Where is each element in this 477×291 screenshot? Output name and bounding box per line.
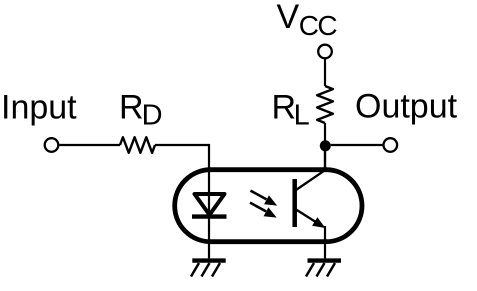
collector lead xyxy=(296,147,325,190)
emitter arrowhead xyxy=(312,217,325,228)
wire RD to LED anode xyxy=(155,145,209,258)
junction node xyxy=(320,140,331,151)
wire input to RD xyxy=(59,144,120,146)
resistor RL xyxy=(317,86,333,123)
emitter lead xyxy=(296,210,316,223)
wire junction to output xyxy=(331,144,384,146)
LED cathode bar xyxy=(192,214,227,218)
optocoupler body xyxy=(175,170,362,242)
light arrow 1 xyxy=(251,191,278,206)
phototransistor Q1 base bar xyxy=(292,179,297,227)
wire RL to junction and collector xyxy=(324,123,326,171)
ground right xyxy=(306,261,341,277)
svg-text:Output: Output xyxy=(355,88,458,126)
LED D1 xyxy=(195,194,225,215)
wire VCC to RL xyxy=(324,59,326,86)
svg-text:VCC: VCC xyxy=(277,0,338,41)
emitter wire to ground xyxy=(324,226,326,258)
svg-text:Input: Input xyxy=(1,89,77,127)
resistor RD xyxy=(120,137,155,153)
svg-text:RD: RD xyxy=(119,89,163,132)
output terminal xyxy=(384,138,398,152)
svg-text:RL: RL xyxy=(272,89,310,132)
VCC terminal xyxy=(318,45,332,59)
input terminal xyxy=(45,138,59,152)
light arrow 2 xyxy=(250,203,277,218)
ground left xyxy=(191,261,226,277)
